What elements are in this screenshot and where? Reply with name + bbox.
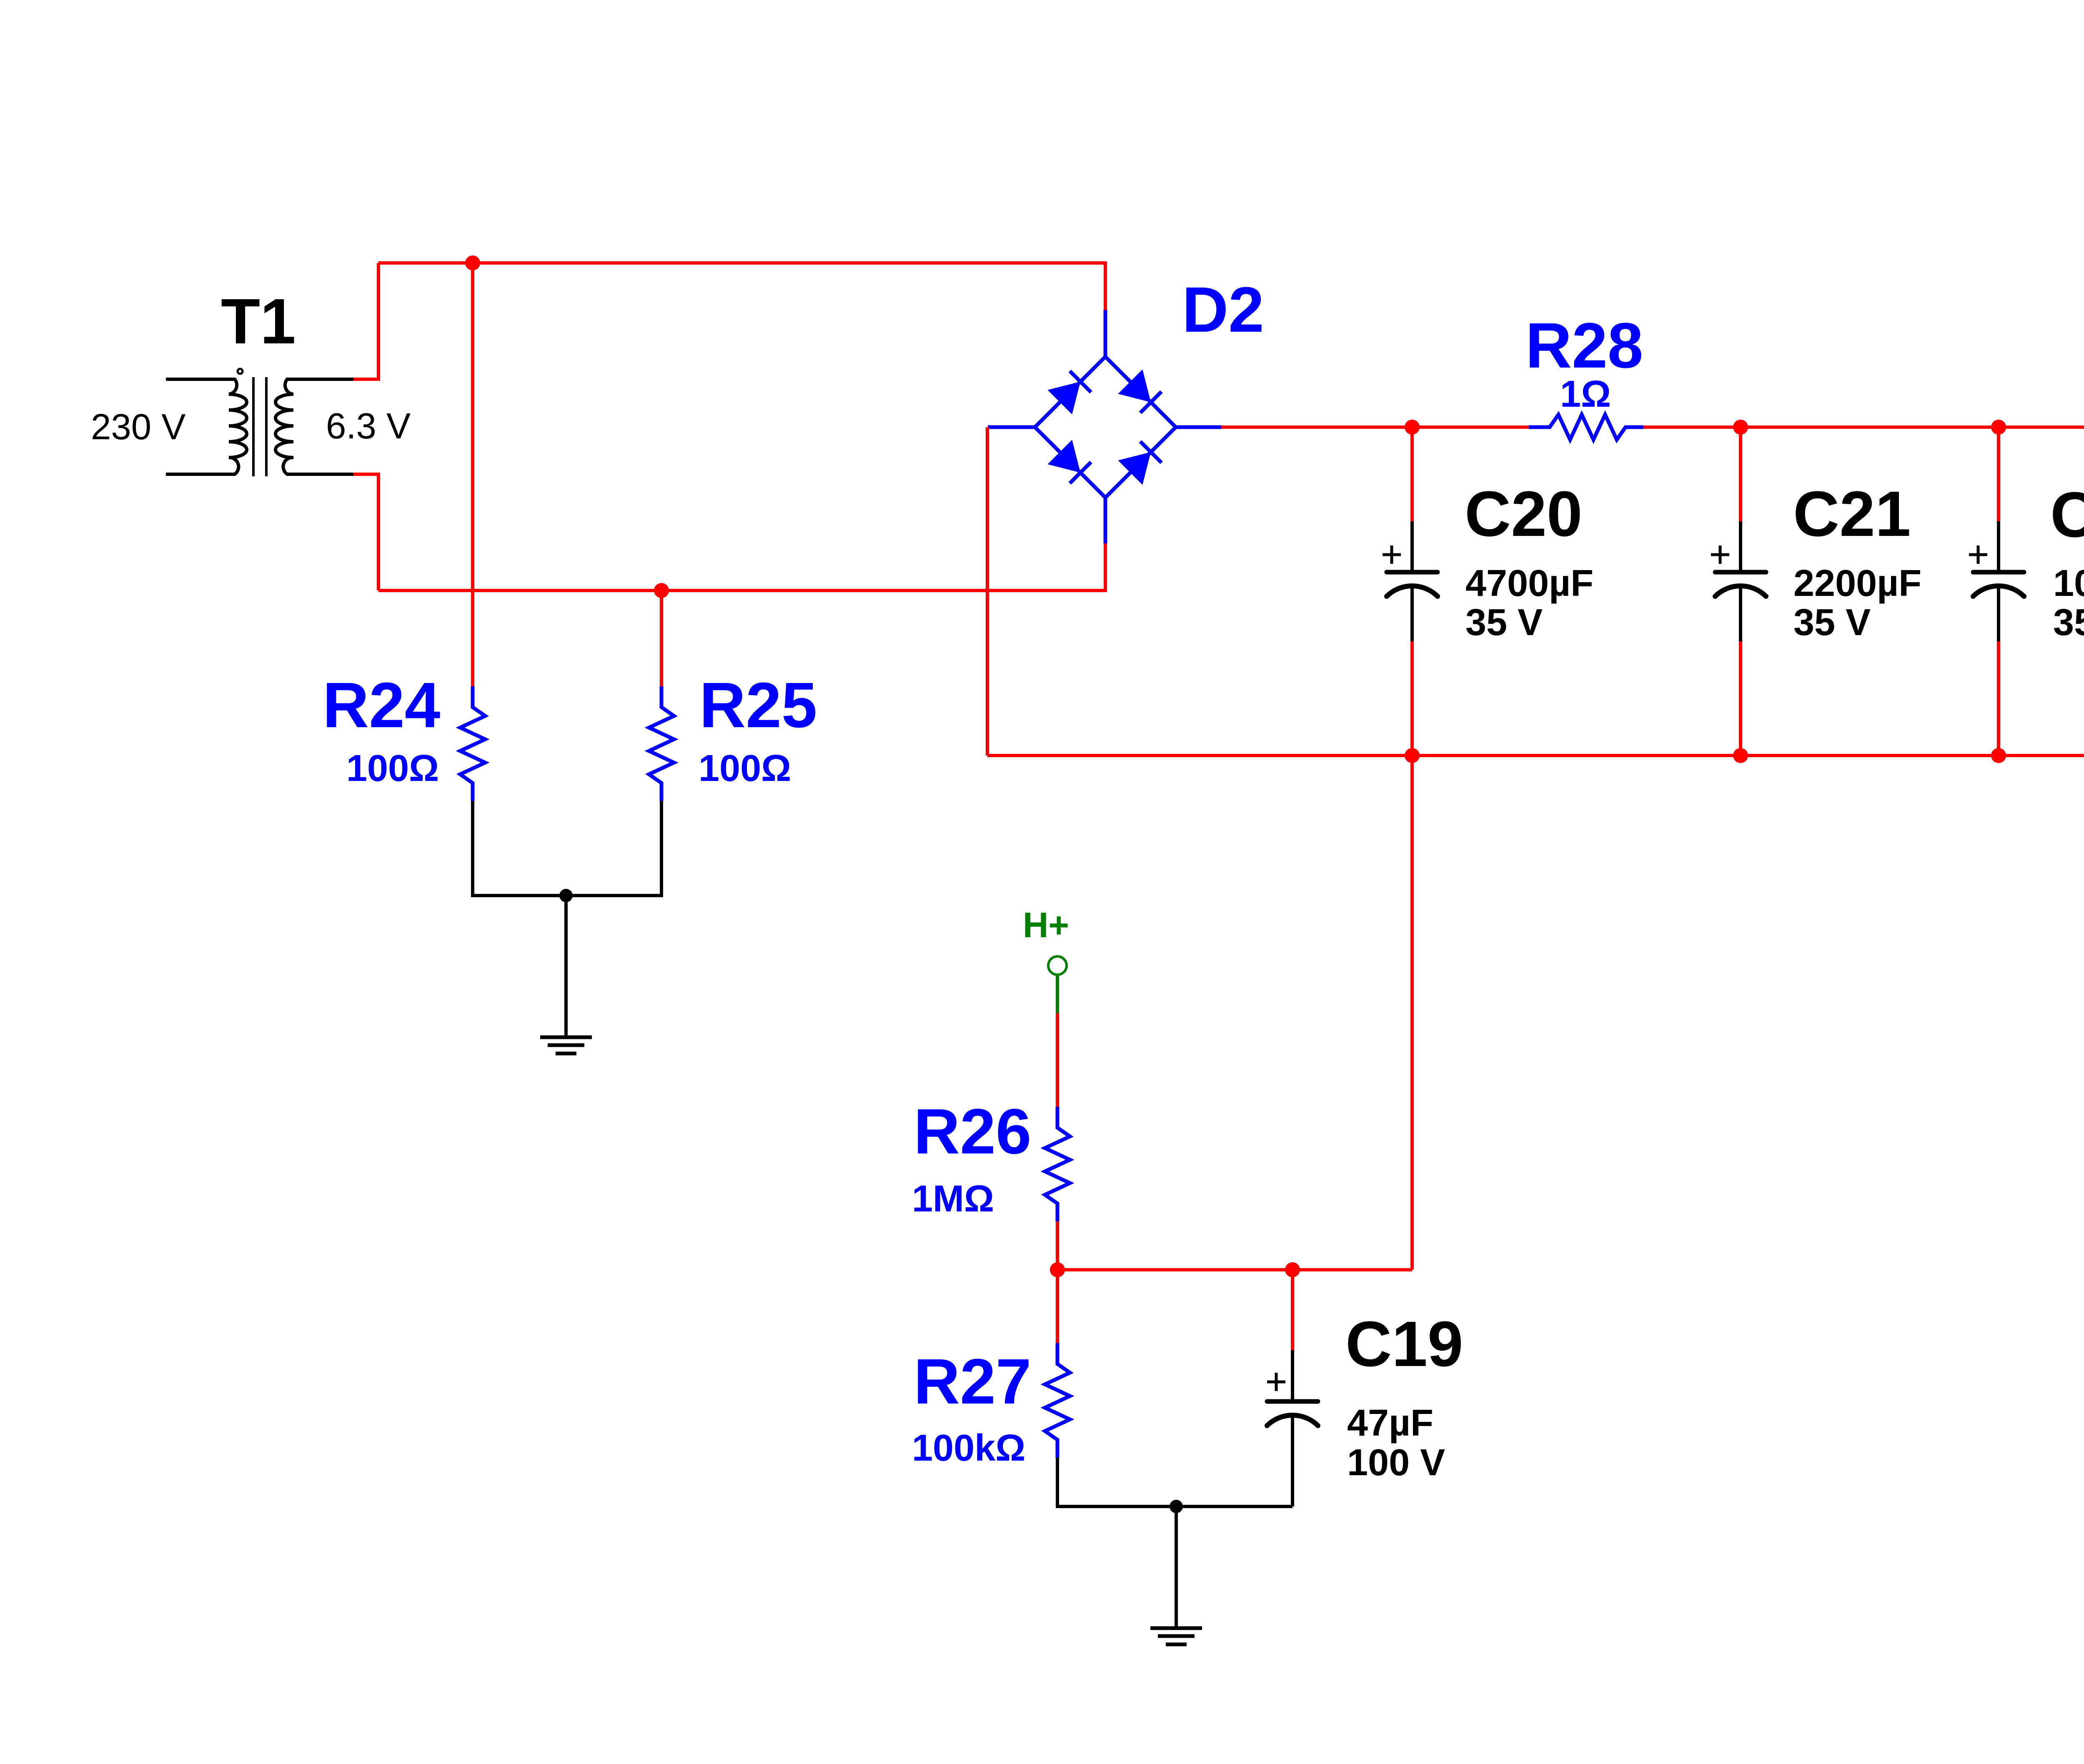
node junction C22 top (1991, 420, 2006, 435)
bridge rectifier D2 bottom stub (1104, 498, 1107, 543)
ground 2 (1150, 1628, 1202, 1644)
wire R27 bottom black (1057, 1458, 1176, 1506)
svg-text:R28: R28 (1525, 310, 1643, 381)
diode D2d bottom-right (1118, 452, 1151, 485)
wire 9 rail (987, 754, 2084, 757)
svg-text:R27: R27 (914, 1346, 1032, 1417)
wire secondary bottom (353, 474, 378, 591)
node junction top rail / R24 (465, 255, 480, 270)
svg-text:T1: T1 (221, 285, 296, 357)
node junction R26/R27/C19 (1050, 1262, 1065, 1277)
capacitor C22 (1997, 427, 2000, 521)
svg-text:35 V: 35 V (1793, 602, 1871, 643)
svg-text:C20: C20 (1465, 478, 1583, 550)
node junction C21 bottom (1733, 748, 1748, 763)
resistor R24 (460, 686, 485, 801)
svg-text:47µF: 47µF (1347, 1402, 1433, 1444)
transformer T1 core (253, 377, 266, 476)
wire ground 1 stem (564, 896, 568, 1036)
resistor R28 (1529, 415, 1643, 440)
wire bottom secondary rail to bridge bottom (378, 543, 1105, 591)
node junction ground 2 (1170, 1500, 1183, 1513)
svg-text:C19: C19 (1345, 1308, 1463, 1380)
svg-text:4700µF: 4700µF (1465, 563, 1593, 604)
node junction C21 top (1733, 420, 1748, 435)
wire ground 2 stem (1175, 1506, 1178, 1626)
resistor R27 (1045, 1343, 1070, 1458)
wire H+ to R26 (1056, 1013, 1059, 1107)
wire H+ green stub (1056, 975, 1059, 1013)
node junction ground 1 (559, 889, 573, 902)
svg-text:D2: D2 (1182, 274, 1264, 345)
svg-text:100Ω: 100Ω (699, 748, 791, 789)
bridge rectifier D2 right stub (1176, 425, 1221, 429)
svg-text:230 V: 230 V (91, 407, 185, 447)
wire bridge left vertex drop to 9 rail (986, 427, 989, 756)
wire R24 drop (471, 263, 474, 686)
svg-text:6.3 V: 6.3 V (326, 406, 411, 446)
wire R25 bottom (566, 801, 661, 896)
node junction C20 bottom (1405, 748, 1420, 763)
svg-text:35 V: 35 V (1465, 602, 1543, 643)
capacitor C19 (1291, 1270, 1294, 1350)
svg-text:C22: C22 (2050, 479, 2084, 550)
wire R26 bottom (1056, 1221, 1059, 1270)
wire junction to mid column (1057, 1268, 1412, 1271)
wire top rail to bridge top (378, 263, 1105, 310)
wire secondary top to top rail (353, 263, 378, 379)
wire R27 top (1056, 1270, 1059, 1343)
resistor R25 (649, 686, 674, 801)
svg-text:R25: R25 (699, 669, 817, 741)
transformer T1 secondary winding (276, 379, 353, 474)
svg-text:1MΩ: 1MΩ (912, 1178, 994, 1220)
capacitor C21 (1739, 427, 1742, 521)
diode D2a top-left (1047, 382, 1080, 415)
svg-text:R24: R24 (323, 669, 441, 741)
svg-text:1000F: 1000F (2053, 563, 2084, 604)
svg-text:C21: C21 (1793, 478, 1911, 550)
svg-text:H+: H+ (1023, 906, 1069, 945)
svg-text:35 V: 35 V (2053, 602, 2084, 643)
svg-text:100Ω: 100Ω (346, 748, 439, 789)
node junction C19 top (1285, 1262, 1300, 1277)
svg-text:1Ω: 1Ω (1560, 373, 1611, 415)
wire R24 bottom (473, 801, 566, 896)
wire bridge right to R28 (1221, 425, 1529, 429)
wire mid column up to 9 rail (1410, 756, 1414, 1270)
bridge rectifier D2 left stub (988, 425, 1035, 429)
svg-text:R26: R26 (914, 1096, 1032, 1167)
transformer T1 primary winding (166, 379, 247, 474)
transformer T1 phase dot (238, 369, 243, 374)
svg-text:100 V: 100 V (1347, 1442, 1445, 1484)
node junction C22 bottom (1991, 748, 2006, 763)
capacitor C20 (1410, 427, 1414, 521)
svg-text:100kΩ: 100kΩ (912, 1427, 1025, 1469)
ground 1 (540, 1037, 592, 1053)
diode D2b top-right (1118, 369, 1151, 402)
resistor R26 (1045, 1107, 1070, 1221)
wire R28 to terminal (1643, 425, 2084, 429)
diode D2c bottom-left (1047, 440, 1080, 473)
svg-text:2200µF: 2200µF (1793, 563, 1921, 604)
wire R25 drop (660, 591, 663, 686)
bridge rectifier D2 top stub (1104, 310, 1107, 357)
node junction C20 top (1405, 420, 1420, 435)
node junction R25 tap (654, 583, 669, 598)
wire C19 bottom black (1176, 1505, 1292, 1508)
bridge rectifier D2 diamond (1035, 357, 1176, 498)
